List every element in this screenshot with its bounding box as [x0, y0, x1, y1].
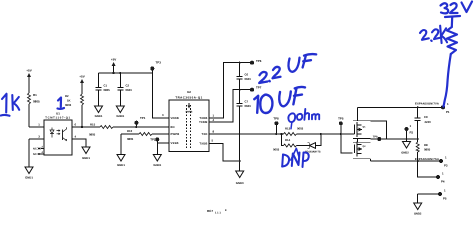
resistor R1 [28, 80, 31, 127]
capacitor C7 [237, 90, 243, 171]
svg-text:NC: NC [33, 153, 37, 156]
annotation 0 ohm [288, 109, 319, 129]
svg-text:1: 1 [447, 102, 449, 106]
svg-text:C1: C1 [104, 84, 108, 88]
svg-text:0805: 0805 [104, 88, 111, 92]
svg-text:TP8: TP8 [273, 117, 279, 121]
capacitor C9 [417, 106, 419, 108]
svg-text:TP5: TP5 [338, 117, 344, 121]
svg-text:TXDB: TXDB [199, 117, 207, 120]
resistor R10 to U2 PWPB [121, 133, 139, 135]
svg-text:TP2: TP2 [150, 138, 156, 142]
svg-text:C7: C7 [245, 99, 249, 103]
ground GND1 left [25, 167, 33, 174]
capacitor C6 [237, 63, 243, 90]
ground GND1 under C1 [95, 106, 103, 113]
svg-text:8: 8 [225, 209, 227, 212]
test point TP5 [339, 121, 343, 125]
svg-text:5: 5 [212, 139, 214, 143]
wire FET2 source to P3 [371, 160, 441, 162]
wire FET link to R8 node [371, 121, 387, 139]
svg-text:6: 6 [75, 123, 77, 127]
svg-text:1: 1 [410, 124, 412, 128]
annotation 2.2 UF [259, 54, 316, 83]
resistor R15 [72, 126, 100, 128]
svg-text:U1: U1 [56, 112, 60, 116]
svg-text:1: 1 [445, 156, 447, 160]
resistor R2 [81, 86, 83, 94]
svg-text:GND2: GND2 [401, 152, 409, 155]
node P5 [418, 194, 440, 203]
resistor R14 branch [282, 134, 284, 146]
svg-text:GND1: GND1 [117, 163, 125, 167]
svg-text:0603: 0603 [245, 104, 252, 108]
svg-text:P1: P1 [446, 110, 450, 114]
op-amp U1 optocoupler box [44, 120, 72, 155]
svg-text:TP7: TP7 [256, 86, 262, 90]
annotation 10 UF [254, 87, 305, 113]
wire U1 pin1 [29, 126, 44, 128]
ground GND2 [403, 142, 411, 149]
svg-text:+5V: +5V [111, 58, 116, 62]
wire TP3 to U2 VDD [152, 70, 169, 118]
svg-text:TP1: TP1 [140, 116, 146, 120]
svg-text:0805: 0805 [89, 133, 96, 137]
svg-text:0603: 0603 [273, 148, 280, 152]
svg-text:Q2: Q2 [363, 145, 367, 148]
svg-text:1: 1 [442, 172, 444, 176]
ground GND1 under C2 [116, 106, 124, 113]
wire to FET gates [321, 134, 353, 153]
svg-text:TP9: TP9 [373, 136, 378, 139]
svg-text:R14: R14 [285, 138, 291, 142]
svg-text:P3: P3 [444, 164, 448, 168]
NC pins of U1 [33, 146, 44, 157]
svg-text:3: 3 [162, 113, 164, 117]
svg-text:1: 1 [444, 189, 446, 193]
svg-text:EXPANSION/7VA: EXPANSION/7VA [415, 103, 439, 106]
svg-text:RC7: RC7 [207, 209, 213, 213]
svg-text:TP3: TP3 [156, 61, 162, 65]
svg-text:TXD: TXD [202, 133, 208, 136]
svg-text:R15: R15 [90, 123, 96, 127]
ground GND2 bottom [414, 203, 422, 210]
svg-text:GND1: GND1 [82, 156, 90, 160]
svg-text:GND3: GND3 [236, 181, 244, 185]
capacitor C1 [96, 73, 102, 106]
svg-text:C9: C9 [424, 115, 428, 119]
svg-text:2: 2 [42, 146, 44, 149]
node P1 [441, 105, 445, 109]
wire U1 pin3 to GND [29, 138, 44, 140]
svg-text:VSSB: VSSB [171, 142, 179, 145]
annotation DNP [282, 148, 309, 167]
svg-text:PWPB: PWPB [171, 133, 180, 136]
node P4 [418, 161, 438, 177]
svg-text:DNPB: DNPB [186, 111, 193, 114]
test point TP3 [150, 67, 154, 71]
svg-text:P2: P2 [410, 131, 414, 135]
svg-text:TRAC3050A-Q1: TRAC3050A-Q1 [175, 95, 202, 99]
svg-text:+5V: +5V [79, 75, 84, 79]
wire +5V rail [99, 72, 153, 74]
svg-text:GND2: GND2 [414, 213, 422, 216]
svg-text:TXDB: TXDB [199, 143, 207, 146]
ground GND1 under U1 right [82, 147, 90, 154]
svg-text:TP6: TP6 [256, 59, 262, 63]
svg-text:GND1: GND1 [116, 114, 124, 118]
svg-text:3: 3 [38, 135, 40, 139]
annotation wire to P1 [444, 54, 451, 107]
svg-text:4: 4 [42, 151, 44, 154]
svg-text:TCMT1107-Q1: TCMT1107-Q1 [45, 116, 70, 119]
resistor R8 [416, 142, 419, 152]
transistor Q2 [353, 139, 371, 161]
svg-text:R2: R2 [65, 94, 69, 98]
annotation battery T bar [445, 16, 460, 17]
svg-text:R13: R13 [285, 127, 291, 131]
svg-text:VDDB: VDDB [171, 117, 179, 120]
transistor Q1 [353, 107, 371, 138]
svg-text:GND1: GND1 [95, 114, 103, 118]
svg-text:R8: R8 [424, 143, 428, 147]
node P2 [405, 127, 409, 131]
svg-text:0603: 0603 [65, 103, 72, 107]
svg-text:P4: P4 [441, 180, 445, 184]
svg-text:4: 4 [213, 118, 215, 122]
svg-text:4: 4 [75, 135, 77, 139]
svg-text:NC: NC [33, 148, 37, 151]
node P3 [439, 159, 443, 163]
svg-text:P5: P5 [443, 197, 447, 201]
svg-text:GND1: GND1 [25, 176, 33, 180]
wire FET1 drain to P1 [358, 106, 444, 108]
annotation 1k [1, 94, 19, 116]
blue handwritten annotations [1, 2, 472, 168]
power +5V for R1 [27, 73, 31, 80]
test point TP1 [134, 121, 138, 125]
diode D1 [306, 134, 321, 148]
svg-text:R1: R1 [33, 93, 37, 97]
IC U2 [169, 100, 209, 152]
ground GND3 [236, 171, 244, 178]
svg-text:0805: 0805 [127, 137, 134, 141]
svg-text:Q1: Q1 [363, 126, 367, 129]
annotation 32 V [441, 2, 473, 107]
capacitor C2 [117, 73, 123, 106]
svg-text:+5V: +5V [26, 69, 31, 73]
power +5V rail for C1 C2 [112, 62, 116, 68]
svg-text:0603: 0603 [126, 88, 133, 92]
ground GND1 under TP2 [153, 155, 161, 162]
wire R10 left to GND [120, 134, 122, 155]
svg-text:U2: U2 [187, 90, 191, 94]
ground GND1 under R10 [117, 155, 125, 162]
annotation small 1 at R2 [58, 98, 65, 109]
svg-text:TXDM: TXDM [199, 121, 208, 124]
svg-text:0805: 0805 [424, 148, 431, 152]
node junction R2/wire [81, 126, 83, 128]
svg-text:EN: EN [171, 126, 175, 129]
svg-text:0805: 0805 [33, 100, 40, 104]
svg-text:R10: R10 [127, 129, 133, 133]
power +5V for R2 [80, 79, 84, 86]
svg-text:2220: 2220 [425, 120, 432, 124]
annotation 2.2k resistor zigzag [447, 27, 457, 54]
annotation 2.2k [419, 25, 448, 46]
svg-text:1 1 1: 1 1 1 [215, 212, 221, 215]
svg-text:8: 8 [213, 130, 215, 134]
svg-text:1K: 1K [67, 99, 71, 103]
svg-text:1: 1 [38, 123, 40, 127]
svg-text:GND1: GND1 [153, 163, 161, 167]
svg-text:1: 1 [213, 114, 215, 118]
resistor R13 [282, 133, 284, 135]
svg-text:C2: C2 [126, 84, 130, 88]
test point TP6 [250, 61, 254, 65]
test point TP8 [274, 121, 278, 125]
svg-text:0603: 0603 [297, 127, 304, 131]
test point TP7 [250, 88, 254, 92]
svg-text:0603: 0603 [245, 77, 252, 81]
